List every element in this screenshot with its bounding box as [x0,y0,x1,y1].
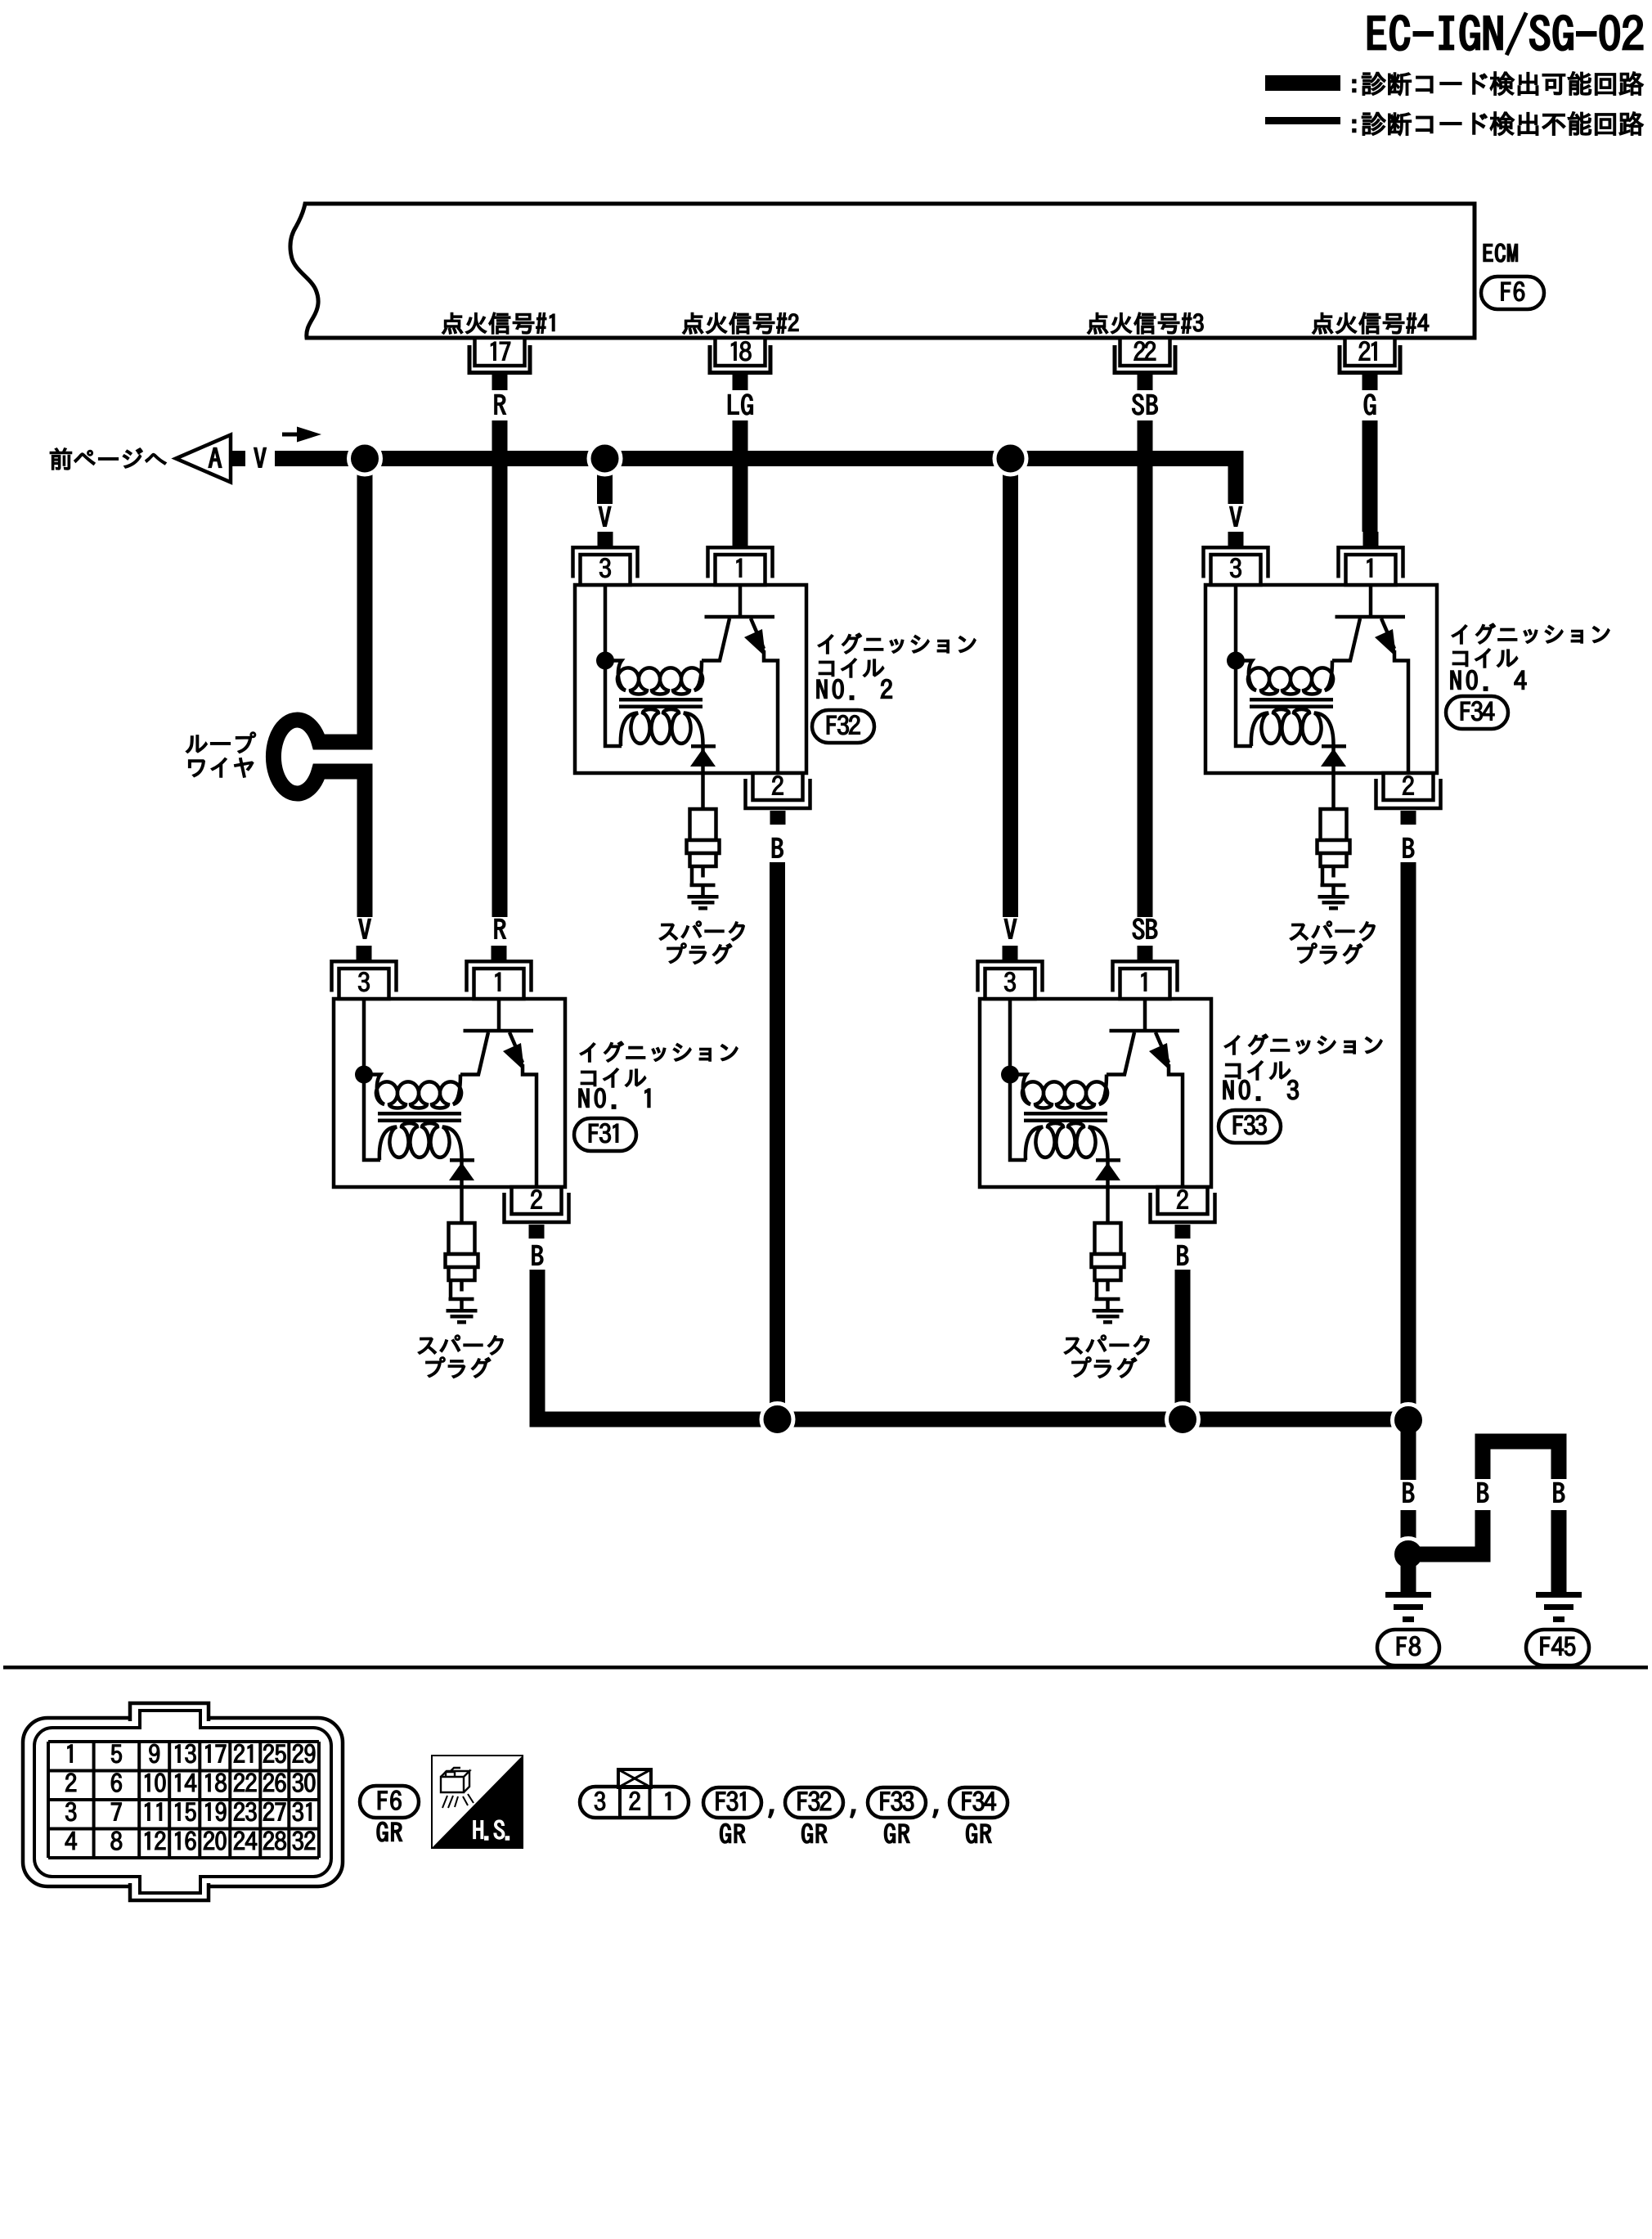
wire pin3 internal (coil NO.3) [1010,999,1026,1160]
label NO.2 [817,679,892,699]
label wire color LG [728,394,752,415]
legend thin wire sample [1265,117,1340,124]
secondary winding (coil NO.4) [1251,709,1334,746]
ECM pin 17 terminal [469,338,530,390]
label SB (at coil3) [1133,919,1157,939]
pin 2 of coil NO.1 [505,1187,569,1239]
wire B coil2 to ground bus [770,862,785,1419]
pin 1 of coil NO.4 [1339,532,1403,585]
diode (coil NO.1) [449,1158,474,1187]
node primary tap (coil NO.2) [596,652,614,670]
wire coil4 branch elbow [1228,451,1244,504]
node primary tap (coil NO.4) [1227,652,1245,670]
primary winding (coil NO.3) [1014,1075,1107,1108]
primary winding (coil NO.4) [1240,661,1333,695]
label GR (F34) [967,1823,992,1843]
transistor Q (coil NO.3) [1107,999,1183,1187]
loop wire [273,720,372,794]
wire to ground F8 (upper) [1401,1420,1416,1480]
wire pin3 internal (coil NO.1) [364,999,380,1160]
ignition coil NO.3 (F33) component box [980,999,1211,1187]
label ループワイヤ [186,732,256,777]
label coil NO.1 [580,1041,738,1087]
label 点火信号#1 [442,312,554,334]
wire B coil4 to ground bus [1401,862,1416,1420]
label coil NO.2 [818,633,976,677]
label V (bus) [254,448,267,468]
label B (coil3) [1178,1246,1188,1266]
flow arrow [282,427,321,443]
pin 3 of coil NO.4 [1204,532,1268,585]
wire B coil1 to ground bus [530,1270,545,1427]
transformer core (coil NO.3) [1024,1112,1107,1122]
wire V bus (top) [275,451,1244,466]
label B (F8 branch) [1403,1483,1414,1503]
legend thick wire sample [1265,75,1340,91]
label spark plug (coil NO.4) [1290,921,1375,964]
label GR (F31) [721,1823,746,1843]
label 前ページへ [50,448,166,470]
label B (F45 right) [1554,1483,1564,1503]
ground (spark plug coil NO.1) [447,1309,478,1324]
comma [933,1810,938,1818]
spark plug (coil NO.4) [1318,809,1350,895]
wire B coil3 to ground bus [1175,1270,1191,1419]
wire G: ECM 21 to coil4 pin1 [1362,420,1378,532]
ground bus [530,1412,1409,1427]
label wire color SB [1133,394,1158,415]
label GR (F32) [802,1823,828,1843]
pin 2 of coil NO.2 [746,773,810,825]
pin 2 of coil NO.4 [1376,773,1441,825]
diode (coil NO.3) [1095,1158,1120,1187]
pin 1 of coil NO.2 [708,532,773,585]
label V (coil1 pin3) [359,919,371,939]
connector ref F32 [812,710,874,743]
wire junction to F45 loop [1408,1547,1491,1562]
wire drop to loop wire / coil1 pin3 [357,459,373,735]
pin 3 of coil NO.1 [332,946,397,999]
transistor Q (coil NO.1) [460,999,536,1187]
ground ref F8 [1377,1630,1439,1666]
spark plug (coil NO.3) [1092,1223,1125,1309]
wire pin3 internal (coil NO.4) [1236,585,1252,746]
junction dot bus/coil3 [994,443,1026,474]
coil connector face view (3-2-1) [580,1769,689,1818]
ground F8 [1385,1592,1431,1622]
wire LG: ECM 18 to coil2 pin1 [733,420,748,532]
secondary winding (coil NO.3) [1026,1123,1108,1160]
wire R: ECM 17 to coil1 pin1 [492,420,508,917]
title EC-IGN/SG-02 [1368,13,1642,54]
wire F45 loop left leg [1475,1510,1491,1554]
legend label undetectable [1353,112,1643,136]
label B (coil4) [1403,839,1414,858]
junction dot bus/B3 [1167,1404,1199,1436]
ground (spark plug coil NO.4) [1318,895,1349,910]
H.S. harness symbol [432,1756,523,1848]
label V (coil2 pin3) [599,507,611,527]
wire coil NO.4 to spark plug [1331,773,1336,809]
junction dot bus/coil1 [349,443,381,474]
stub after connector A [231,451,245,466]
ECM pin 18 terminal [710,338,770,390]
transformer core (coil NO.4) [1250,698,1333,708]
pin 1 of coil NO.3 [1113,946,1178,999]
wire drop to coil3 pin3 [1003,459,1018,918]
spark plug (coil NO.2) [687,809,720,895]
connector ref F34 (bottom) [949,1787,1008,1818]
label B (coil2) [772,839,783,858]
label 点火信号#2 [683,312,798,334]
label coil NO.3 [1224,1034,1382,1080]
pin 2 of coil NO.3 [1151,1187,1215,1239]
primary winding (coil NO.1) [368,1075,461,1108]
transformer core (coil NO.2) [619,698,703,708]
label spark plug (coil NO.1) [418,1335,503,1378]
label GR (F33) [885,1823,910,1843]
label wire color G [1364,394,1376,415]
wire loop to coil1 pin3 [357,771,373,917]
label GR (F6) [377,1822,402,1841]
label spark plug (coil NO.2) [659,921,744,964]
transistor Q (coil NO.4) [1332,585,1408,773]
label V (coil4 pin3) [1230,507,1242,527]
connector ref F31 [574,1118,636,1151]
ground (spark plug coil NO.3) [1093,1309,1124,1324]
label 点火信号#3 [1088,312,1204,334]
node primary tap (coil NO.3) [1001,1066,1019,1084]
pin 1 of coil NO.1 [467,946,532,999]
primary winding (coil NO.2) [609,661,703,695]
connector ref F6 (bottom) [360,1786,419,1818]
ECM box [290,204,1475,338]
ignition coil NO.4 (F34) component box [1205,585,1437,773]
node primary tap (coil NO.1) [355,1066,373,1084]
label V (coil3 pin3) [1004,919,1017,939]
label R (at coil1) [495,919,506,939]
secondary winding (coil NO.1) [379,1123,462,1160]
connector ref F6 (ECM) [1481,277,1544,309]
ground F45 [1536,1592,1582,1622]
label NO.3 [1223,1080,1299,1100]
separator line [3,1666,1648,1670]
label B (coil1) [532,1246,543,1266]
ignition coil NO.1 (F31) component box [334,999,565,1187]
ground (spark plug coil NO.2) [688,895,719,910]
pin 3 of coil NO.2 [573,532,638,585]
label NO.4 [1451,670,1526,690]
wire coil NO.2 to spark plug [701,773,705,809]
wire drop to coil2 pin3 [597,459,613,505]
off-page connector A [176,435,231,483]
wire F8 to ground [1401,1554,1416,1592]
ECM pin 22 terminal [1115,338,1175,390]
ECM pin 21 terminal [1340,338,1400,390]
connector ref F33 [1219,1110,1281,1143]
transformer core (coil NO.1) [378,1112,461,1122]
legend label detectable [1353,72,1643,96]
label spark plug (coil NO.3) [1064,1335,1149,1378]
wire coil NO.1 to spark plug [460,1187,464,1223]
transistor Q (coil NO.2) [702,585,778,773]
junction dot F8/F45 branch [1393,1539,1425,1571]
wire F45 loop top [1483,1441,1559,1479]
wire F45 loop right leg [1551,1510,1567,1592]
wire coil NO.3 to spark plug [1106,1187,1110,1223]
connector ref F32 (bottom) [785,1787,843,1818]
wire SB: ECM 22 to coil3 pin1 [1138,420,1153,917]
label coil NO.4 [1452,623,1609,668]
connector ref F33 (bottom) [868,1787,926,1818]
pin 3 of coil NO.3 [978,946,1043,999]
comma [851,1810,855,1818]
junction dot bus/coil2 [589,443,621,474]
spark plug (coil NO.1) [446,1223,478,1309]
ignition coil NO.2 (F32) component box [575,585,806,773]
diode (coil NO.4) [1321,744,1346,773]
label B (F45 left) [1478,1483,1488,1503]
label wire color R [495,395,506,415]
comma [769,1810,774,1818]
connector ref F34 [1446,696,1508,729]
label 点火信号#4 [1313,312,1429,334]
label NO.1 [579,1088,650,1108]
wire pin3 internal (coil NO.2) [605,585,622,746]
diode (coil NO.2) [690,744,716,773]
ECM connector face view (F6) [23,1703,343,1900]
junction dot bus/B4 [1393,1405,1425,1436]
label ECM [1484,244,1517,262]
ground ref F45 [1526,1630,1589,1666]
junction dot bus/B2 [761,1404,793,1436]
secondary winding (coil NO.2) [621,709,703,746]
wire to ground F8 (lower) [1401,1510,1416,1554]
connector ref F31 (bottom) [703,1787,761,1818]
